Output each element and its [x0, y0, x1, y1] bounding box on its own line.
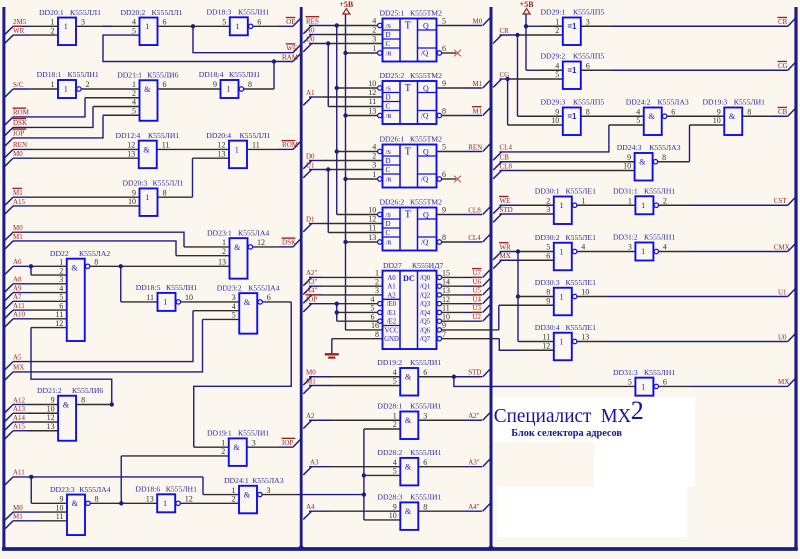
inverter DD31:3 К555ЛН1 — [635, 378, 653, 396]
svg-text:U7: U7 — [473, 269, 482, 277]
inverter DD18:1 К555ЛН1 — [58, 80, 76, 98]
svg-text:9: 9 — [51, 396, 55, 405]
net label MX — [5, 372, 13, 380]
wire DD26:1 Q to REN — [437, 151, 464, 153]
svg-text:WE: WE — [286, 45, 297, 53]
svg-text:4: 4 — [393, 458, 397, 467]
svg-text:1: 1 — [628, 196, 632, 205]
wire A4 to DD28:3 pin9 — [309, 510, 330, 512]
svg-text:12: 12 — [55, 319, 63, 328]
net label A4 (middle) — [303, 511, 311, 519]
wire DD20:2 out to DD18:3 pin5 — [158, 25, 230, 27]
wire DD27 /Q6 crossing to right section — [442, 329, 499, 331]
net label IOP output — [293, 439, 300, 447]
svg-text:2М5: 2М5 — [13, 18, 27, 26]
svg-text:IOP: IOP — [13, 130, 24, 138]
net label ROM — [5, 117, 13, 125]
svg-text:6: 6 — [267, 293, 271, 302]
net label CR — [493, 35, 501, 43]
wire D0 to DD26:1 D — [309, 160, 322, 162]
svg-text:14: 14 — [442, 277, 450, 286]
svg-text:WR: WR — [500, 243, 512, 251]
svg-text:2: 2 — [372, 26, 376, 35]
svg-text:А5: А5 — [13, 353, 22, 361]
svg-text:8: 8 — [94, 258, 98, 267]
svg-text:А13: А13 — [13, 405, 26, 413]
svg-text:13: 13 — [146, 495, 154, 504]
svg-text:1: 1 — [372, 170, 376, 179]
svg-text:1: 1 — [232, 486, 236, 495]
svg-text:2: 2 — [232, 495, 236, 504]
svg-text:2: 2 — [59, 266, 63, 275]
wire DD28:2 out to A3" — [418, 466, 463, 468]
svg-text:2: 2 — [555, 26, 559, 35]
OR gate DD20:3 К555ЛЛ1 — [140, 188, 158, 216]
svg-text:REN: REN — [13, 141, 27, 149]
net label WR (right) — [493, 252, 501, 260]
svg-text:6: 6 — [586, 61, 590, 70]
svg-text:C: C — [386, 166, 391, 174]
svg-text:10: 10 — [56, 503, 64, 512]
svg-text:13: 13 — [368, 233, 376, 242]
svg-text:5: 5 — [393, 377, 397, 386]
wire А9 to DD22 — [13, 292, 31, 294]
svg-text:/Q3: /Q3 — [420, 301, 431, 308]
svg-text:T: T — [405, 21, 411, 32]
svg-text:10: 10 — [389, 511, 397, 520]
svg-text:10: 10 — [368, 206, 376, 215]
svg-text:/Q5: /Q5 — [420, 319, 431, 326]
svg-text:/Q: /Q — [421, 49, 429, 58]
net label U4 — [483, 296, 490, 304]
svg-text:6: 6 — [59, 301, 63, 310]
svg-text:А3": А3" — [468, 458, 480, 466]
net label IOP (middle) — [303, 304, 311, 312]
wire DD25:2 /Q to M1 inverted — [442, 115, 464, 117]
svg-text:T: T — [405, 147, 411, 158]
wire A5 to DD23:2 pin4 — [13, 311, 193, 362]
svg-text:К555ЛЛ1: К555ЛЛ1 — [153, 179, 184, 188]
svg-text:Блок селектора адресов: Блок селектора адресов — [511, 427, 622, 439]
svg-text:12: 12 — [47, 413, 55, 422]
svg-text:DSK: DSK — [282, 239, 296, 247]
svg-text:М1: М1 — [473, 80, 483, 88]
svg-text:DD24:2: DD24:2 — [626, 98, 651, 107]
svg-text:1: 1 — [641, 247, 645, 256]
wire DD12:4 out to DD20:4 pin12 — [157, 148, 229, 150]
wire DD31:1 out to CST — [659, 204, 690, 206]
wire M0 to DD12:4 pin13 — [13, 157, 32, 159]
net label A11 — [5, 477, 13, 485]
svg-text:DD29:2: DD29:2 — [541, 52, 566, 61]
svg-text:T: T — [405, 210, 411, 221]
svg-text:U1: U1 — [778, 288, 787, 296]
net label M1 — [5, 197, 13, 205]
svg-text:8: 8 — [442, 107, 446, 116]
svg-text:1: 1 — [375, 269, 379, 278]
net label A4" output — [483, 503, 490, 511]
svg-text:К555ЛИ1: К555ЛИ1 — [410, 448, 441, 457]
net label CL8 output — [483, 207, 490, 215]
svg-text:Q: Q — [423, 210, 429, 219]
svg-text:К555ЛП5: К555ЛП5 — [573, 98, 604, 107]
net label CL8 — [493, 171, 501, 179]
wire A0 to DD25:1 D — [309, 34, 322, 36]
OR gate DD20:2 К555ЛЛ1 — [140, 18, 158, 46]
wire WR rail to DD30:4 pin11 — [518, 341, 554, 343]
svg-text:1: 1 — [641, 382, 645, 391]
svg-text:К555ЛЕ1: К555ЛЕ1 — [566, 233, 597, 242]
net label А8 — [5, 284, 13, 292]
svg-text:13: 13 — [218, 258, 226, 267]
svg-text:2: 2 — [631, 396, 644, 425]
svg-text:9: 9 — [442, 206, 446, 215]
svg-text:1: 1 — [145, 193, 149, 202]
svg-text:8: 8 — [95, 495, 99, 504]
net label M1 output — [483, 80, 490, 88]
wire CG rail to DD29:3 pin10 — [508, 124, 563, 126]
svg-text:OE: OE — [286, 18, 295, 26]
svg-text:/Q1: /Q1 — [420, 284, 430, 291]
svg-text:К555ТМ2: К555ТМ2 — [410, 198, 442, 207]
svg-text:A0: A0 — [306, 26, 315, 34]
svg-text:12: 12 — [257, 238, 265, 247]
wire +5V to DD25:2 /R — [343, 113, 347, 117]
wire CB to DD24:3 pin9 — [500, 161, 521, 163]
svg-text:8: 8 — [81, 396, 85, 405]
svg-text:1: 1 — [560, 247, 564, 256]
svg-text:А4": А4" — [306, 287, 318, 295]
svg-text:CB: CB — [500, 154, 510, 162]
wire DD27 GND to ground — [332, 338, 383, 340]
wire A3 to DD28:2 pin4 — [309, 466, 330, 468]
svg-text:&: & — [143, 145, 150, 154]
svg-text:11: 11 — [442, 304, 450, 313]
svg-text:М0: М0 — [306, 369, 316, 377]
net label CR inverted — [788, 18, 795, 26]
wire DD29:3 out to DD24:2 pin4 — [581, 115, 644, 117]
svg-text:9: 9 — [717, 107, 721, 116]
svg-text:12: 12 — [368, 215, 376, 224]
wire MX to DD30:2 pin6 — [500, 259, 521, 261]
wire A2 to DD28:1 pin1 — [309, 419, 330, 421]
net label A0 — [303, 35, 311, 43]
svg-text:DD29:1: DD29:1 — [541, 8, 566, 17]
svg-text:CST: CST — [774, 197, 788, 205]
svg-text:/R: /R — [386, 176, 393, 183]
wire MX to DD23:2 pin5 — [13, 319, 203, 372]
svg-text:DD26:2: DD26:2 — [380, 198, 405, 207]
D flip-flop DD26:2 К555ТМ2 — [383, 208, 437, 251]
svg-text:А11: А11 — [13, 469, 25, 477]
net label 2M5 — [5, 26, 13, 34]
D flip-flop DD25:1 К555ТМ2 — [383, 19, 437, 62]
svg-text:3: 3 — [372, 161, 376, 170]
svg-text:10: 10 — [368, 79, 376, 88]
svg-text:3: 3 — [372, 35, 376, 44]
svg-text:К555ЛИ1: К555ЛИ1 — [410, 493, 441, 502]
XOR gate DD29:2 К555ЛП5 — [563, 62, 581, 90]
svg-text:8: 8 — [248, 80, 252, 89]
net label U3 — [483, 305, 490, 313]
wire M1 to DD20:3 pin9 — [13, 196, 30, 198]
svg-text:8: 8 — [375, 330, 379, 339]
NOR gate DD30:2 К555ЛЕ1 — [554, 243, 572, 271]
net label А9 — [5, 293, 13, 301]
svg-text:9: 9 — [546, 296, 550, 305]
wire CG to DD29:2 pin5 and DD29:3 pin10 — [500, 78, 508, 80]
svg-text:DD29:3: DD29:3 — [541, 98, 566, 107]
svg-text:К555ТМ2: К555ТМ2 — [410, 135, 442, 144]
svg-text:9: 9 — [393, 502, 397, 511]
wire DD27 /Q1 to U6 — [442, 285, 464, 287]
wire DD22 out to DD18:5 input — [120, 266, 122, 302]
svg-text:13: 13 — [442, 286, 450, 295]
svg-text:D: D — [386, 157, 391, 165]
NAND gate DD24:2 К555ЛА3 — [644, 108, 662, 136]
svg-text:2: 2 — [546, 196, 550, 205]
svg-text:А4": А4" — [468, 503, 480, 511]
svg-text:5: 5 — [636, 116, 640, 125]
svg-text:3: 3 — [267, 486, 271, 495]
svg-text:11: 11 — [252, 141, 260, 150]
svg-text:/Q: /Q — [421, 111, 429, 120]
svg-text:DD12:4: DD12:4 — [116, 131, 141, 140]
svg-text:/Е0: /Е0 — [387, 301, 397, 308]
wire DD23:2 out to DD19:1 pin1 — [263, 301, 292, 303]
svg-text:&: & — [648, 112, 655, 121]
wire M1 to DD19:2 pin5 — [309, 385, 330, 387]
svg-text:К555ЛА3: К555ЛА3 — [252, 476, 283, 485]
svg-text:6: 6 — [257, 18, 261, 27]
wire +5V to DD26:2 /R — [343, 240, 347, 244]
svg-text:CR: CR — [778, 18, 788, 26]
wire U0 rail to DD25:2 C — [328, 106, 382, 108]
net label CB inverted — [788, 108, 795, 116]
net label A2" output — [483, 412, 490, 420]
svg-text:6: 6 — [546, 251, 550, 260]
svg-text:6: 6 — [442, 44, 446, 53]
svg-text:/Q: /Q — [421, 175, 429, 184]
svg-text:/Q4: /Q4 — [420, 310, 431, 317]
svg-text:CL8: CL8 — [500, 162, 513, 170]
svg-text:10: 10 — [185, 293, 193, 302]
svg-text:К555ЛН1: К555ЛН1 — [644, 186, 675, 195]
svg-text:DD30:3: DD30:3 — [535, 278, 560, 287]
svg-text:1: 1 — [51, 18, 55, 27]
wire DD25:2 Q to M1 — [437, 87, 464, 89]
D flip-flop DD25:2 К555ТМ2 — [383, 81, 437, 124]
NAND gate DD22 К555ЛА2 — [67, 259, 85, 341]
junction DD21:2 output node — [110, 402, 114, 406]
wire RAM to DD18:4 output — [273, 62, 275, 90]
XOR gate DD29:3 К555ЛП5 — [563, 108, 581, 136]
svg-text:9: 9 — [213, 80, 217, 89]
svg-text:МХ: МХ — [601, 405, 632, 427]
svg-text:8: 8 — [546, 288, 550, 297]
svg-text:1: 1 — [222, 238, 226, 247]
svg-text:C: C — [386, 229, 391, 237]
svg-text:DD18:4: DD18:4 — [199, 70, 224, 79]
svg-text:DD20:2: DD20:2 — [121, 8, 146, 17]
net label WR — [5, 35, 13, 43]
net label A6 — [5, 266, 13, 274]
svg-text:А15: А15 — [13, 198, 26, 206]
wire DD22 pin12 from DD21:2 output route — [31, 328, 112, 405]
+5V rail (right) — [525, 14, 527, 70]
net label M0 — [5, 158, 13, 166]
wire DD23:3 out to DD18:6 input — [90, 502, 157, 504]
svg-text:DD23:2: DD23:2 — [217, 283, 242, 292]
svg-text:К555ЛЕ1: К555ЛЕ1 — [566, 323, 597, 332]
svg-text:4: 4 — [132, 18, 136, 27]
wire DD28:3 out to A4" — [418, 510, 463, 512]
svg-text:К555ЛН1: К555ЛН1 — [166, 283, 197, 292]
inverter DD31:1 К555ЛН1 — [635, 196, 653, 214]
net label CMX — [788, 244, 795, 252]
svg-text:К555ИД7: К555ИД7 — [412, 261, 443, 270]
junction rail at DD28:2 pin5 — [362, 473, 366, 477]
wire DD18:3 out to OE — [253, 25, 278, 27]
svg-text:DD31:3: DD31:3 — [613, 368, 638, 377]
svg-text:3: 3 — [375, 286, 379, 295]
svg-text:/S: /S — [386, 149, 392, 156]
net label А14 — [5, 422, 13, 430]
net label D1 — [303, 224, 311, 232]
svg-text:1: 1 — [641, 201, 645, 210]
net label MX (right) — [493, 260, 501, 268]
net label А13 — [5, 413, 13, 421]
svg-text:5: 5 — [442, 143, 446, 152]
svg-text:4: 4 — [232, 302, 236, 311]
svg-text:DD26:1: DD26:1 — [380, 135, 405, 144]
wire A3" to DD27 A1 — [309, 285, 322, 287]
net label A1 — [303, 97, 311, 105]
wire rail to DD28:2 pin5 — [364, 474, 400, 476]
wire IOP to DD21:1 pin5 — [13, 115, 103, 138]
svg-text:13: 13 — [47, 422, 55, 431]
svg-text:А8: А8 — [13, 276, 22, 284]
wire WR to DD30:2 pin5 and rail — [500, 251, 519, 253]
svg-text:А3: А3 — [310, 458, 319, 466]
wire DD31:3 out to MX — [659, 385, 690, 387]
svg-text:=1: =1 — [568, 112, 578, 121]
svg-text:6: 6 — [671, 107, 675, 116]
net label S/C — [5, 89, 13, 97]
net label U1 output — [788, 289, 795, 297]
D flip-flop DD26:1 К555ТМ2 — [383, 145, 437, 188]
net label U2 — [483, 313, 490, 321]
svg-text:&: & — [234, 243, 241, 252]
svg-text:К555ЛН1: К555ЛН1 — [644, 368, 675, 377]
svg-text:9: 9 — [442, 79, 446, 88]
svg-text:М1: М1 — [13, 233, 23, 241]
svg-text:15: 15 — [442, 269, 450, 278]
svg-text:A1: A1 — [387, 284, 395, 291]
inverter DD18:5 К555ЛН1 — [158, 293, 176, 311]
inverter DD18:3 К555ЛН1 — [230, 17, 248, 35]
svg-text:&: & — [639, 158, 646, 167]
NAND gate DD23:3 К555ЛА4 — [67, 495, 85, 536]
svg-text:10: 10 — [551, 116, 559, 125]
wire DD21:2 out — [76, 404, 112, 406]
svg-text:/R: /R — [386, 239, 393, 246]
svg-text:/S: /S — [386, 85, 392, 92]
svg-text:13: 13 — [218, 149, 226, 158]
wire WE to DD30:1 pin2 — [500, 204, 521, 206]
svg-text:DD24:3: DD24:3 — [617, 143, 642, 152]
svg-text:DD23:3: DD23:3 — [50, 485, 75, 494]
svg-text:6: 6 — [163, 80, 167, 89]
svg-text:/S: /S — [386, 212, 392, 219]
svg-text:DD25:2: DD25:2 — [380, 71, 405, 80]
wire А7 to DD22 — [13, 300, 31, 302]
svg-text:STD: STD — [500, 206, 513, 214]
svg-text:А9: А9 — [13, 284, 22, 292]
svg-text:10: 10 — [623, 162, 631, 171]
svg-text:8: 8 — [442, 233, 446, 242]
junction rail at DD24:1 crossing — [362, 492, 366, 496]
svg-text:&: & — [71, 263, 78, 272]
svg-text:А4: А4 — [306, 503, 315, 511]
svg-text:М0: М0 — [13, 224, 23, 232]
wire DD20:1 out to DD20:2 pin4 — [76, 25, 140, 27]
decoder DD27 К555ИД7 — [383, 271, 437, 349]
svg-text:DD20:3: DD20:3 — [123, 179, 148, 188]
svg-text:DD19:2: DD19:2 — [377, 358, 402, 367]
svg-text:/Q7: /Q7 — [420, 336, 431, 343]
net label CG — [493, 79, 501, 87]
wire DD20:4 out to ROM label — [248, 148, 279, 150]
net label M0 (second) — [5, 232, 13, 240]
left bus — [2, 7, 5, 549]
svg-text:8: 8 — [163, 188, 167, 197]
net label CB — [493, 162, 501, 170]
svg-text:2: 2 — [51, 26, 55, 35]
middle bus 1 — [300, 7, 303, 549]
svg-text:&: & — [63, 400, 70, 409]
svg-text:WE: WE — [500, 197, 511, 205]
svg-text:К555ЛИ1: К555ЛИ1 — [238, 429, 269, 438]
svg-text:DD23:1: DD23:1 — [207, 228, 232, 237]
svg-text:11: 11 — [162, 141, 170, 150]
svg-text:10: 10 — [581, 288, 589, 297]
svg-text:DD24:1: DD24:1 — [224, 476, 249, 485]
wire DD19:3 out to CB inverted — [742, 115, 770, 117]
svg-text:DC: DC — [403, 274, 415, 283]
wire WE from DD20:2 output junction — [193, 26, 293, 52]
svg-text:/Е2: /Е2 — [387, 319, 397, 326]
svg-text:5: 5 — [132, 26, 136, 35]
svg-text:5: 5 — [393, 467, 397, 476]
AND gate DD19:3 К555ЛИ1 — [724, 108, 742, 136]
net label M0 output — [483, 18, 490, 26]
svg-text:А3": А3" — [306, 278, 318, 286]
net label MX output — [788, 379, 795, 387]
wire DD22 out to DD23:1 pin13 — [90, 265, 229, 267]
svg-text:DD18:5: DD18:5 — [136, 283, 161, 292]
svg-text:М1: М1 — [13, 513, 23, 521]
svg-text:D0: D0 — [306, 152, 315, 160]
wire DD28:1 out to A2" — [418, 419, 463, 421]
svg-text:12: 12 — [185, 495, 193, 504]
svg-text:1: 1 — [145, 22, 149, 31]
svg-text:DSK: DSK — [13, 119, 27, 127]
svg-text:GND: GND — [384, 336, 399, 343]
junction DD23:3 output node — [119, 501, 123, 505]
wire M1 to DD23:1 pin2 — [13, 241, 176, 256]
svg-text:A2: A2 — [387, 292, 396, 299]
